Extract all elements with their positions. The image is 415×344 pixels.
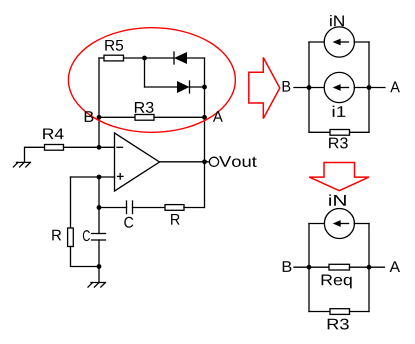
wire mid circuit right column: [368, 42, 370, 132]
junction bottom ground node: [97, 264, 102, 269]
label node A (bottom): [390, 261, 400, 272]
wire bottom circuit bottom branch right: [350, 311, 370, 313]
label Vout: [219, 156, 257, 167]
diode D2 (anti-parallel, pointing right): [177, 81, 205, 93]
wire iN to right column: [354, 41, 369, 43]
junction node A (mid): [367, 85, 372, 90]
capacitor C (grid, vertical): [92, 234, 106, 241]
junction lower diode to column: [202, 85, 207, 90]
current source i1 (mid): [324, 72, 354, 102]
ground symbol bottom: [88, 283, 106, 288]
wire Req to node A (bottom): [350, 266, 385, 268]
label R vertical: [52, 230, 61, 241]
label Req: [322, 275, 352, 289]
current source iN (mid): [324, 27, 354, 57]
label node B (mid): [283, 81, 291, 92]
node A: [202, 115, 207, 120]
wire top branch left (node B column to R5): [99, 57, 104, 59]
label R4: [43, 128, 63, 139]
wire node A stub (mid): [354, 87, 385, 89]
wire node A right column vertical: [204, 58, 206, 208]
wire bottom circuit bottom branch left: [309, 311, 330, 313]
junction node B (mid): [307, 85, 312, 90]
wire node B stub (bottom): [294, 266, 329, 268]
capacitor C (series feedback): [127, 201, 133, 214]
resistor R (grid, vertical): [68, 228, 74, 247]
terminal Vout: [209, 157, 218, 166]
wire plus column upper: [98, 177, 100, 234]
wire junction drop to lower diode branch: [144, 58, 146, 87]
junction R4 / inverting input: [97, 145, 102, 150]
label node B: [85, 111, 94, 122]
junction node B (bottom): [307, 265, 312, 270]
red highlight ellipse: [68, 28, 235, 133]
resistor R4: [45, 145, 64, 151]
wire node B stub (mid): [294, 87, 324, 89]
wire mid circuit top branch: [309, 41, 324, 43]
junction node R5-diodes: [142, 56, 147, 61]
wire bottom circuit top branch: [309, 223, 325, 225]
wire iN to right column (bottom): [354, 223, 369, 225]
label R series: [171, 214, 180, 225]
wire lower diode branch left: [145, 86, 178, 88]
resistor R3: [135, 115, 154, 121]
label C series: [124, 217, 133, 228]
ground symbol left: [13, 162, 30, 167]
label R5: [105, 40, 123, 51]
wire R4 to op-amp inverting input: [64, 146, 115, 148]
junction node A (bottom): [367, 265, 372, 270]
wire node B to R3: [99, 116, 135, 118]
label i1: [333, 106, 346, 117]
resistor R (series feedback): [165, 205, 184, 211]
resistor R3 (bottom): [330, 309, 350, 315]
wire left branch down to R: [70, 177, 72, 228]
wire R5 to diode junction: [124, 57, 175, 59]
junction non-inverting input: [97, 175, 102, 180]
wire cap to bottom node: [98, 240, 100, 267]
resistor R3 (mid): [330, 130, 350, 136]
wire series R to output column: [184, 207, 205, 209]
current source iN (bottom): [324, 209, 354, 239]
wire R to bottom node: [71, 247, 100, 267]
wire bottom circuit left column: [308, 224, 310, 312]
node B: [97, 115, 102, 120]
label iN (bottom): [329, 194, 346, 205]
wire op-amp output: [160, 161, 210, 163]
op-amp U1: [115, 133, 160, 191]
label node A: [213, 111, 223, 122]
label R3 (mid): [329, 137, 348, 148]
wire series C to R: [133, 207, 166, 209]
diode D1 (anti-parallel, pointing left): [174, 52, 205, 64]
junction feedback tap: [97, 205, 102, 210]
wire node B column vertical: [98, 58, 100, 147]
wire ground to R4: [25, 147, 45, 162]
wire mid circuit left column: [308, 42, 310, 132]
label R3 (bottom): [328, 319, 349, 330]
label node B (bottom): [283, 261, 292, 272]
label C vertical: [83, 230, 90, 241]
wire R3 to node A: [154, 116, 205, 118]
wire mid circuit bottom branch right: [350, 131, 370, 133]
wire mid circuit bottom branch left: [309, 131, 330, 133]
wire bottom node to ground: [98, 267, 100, 283]
red block arrow right: [249, 58, 280, 119]
red block arrow down: [309, 163, 369, 191]
label R3: [135, 102, 154, 113]
wire feedback tap to series C: [99, 207, 127, 209]
wire bottom circuit right column: [368, 224, 370, 312]
resistor Req: [329, 264, 350, 270]
label iN (mid): [330, 15, 344, 26]
wire non-inverting input line: [71, 176, 115, 178]
label node A (mid): [390, 82, 400, 93]
junction output node: [202, 159, 207, 164]
resistor R5: [104, 55, 124, 61]
